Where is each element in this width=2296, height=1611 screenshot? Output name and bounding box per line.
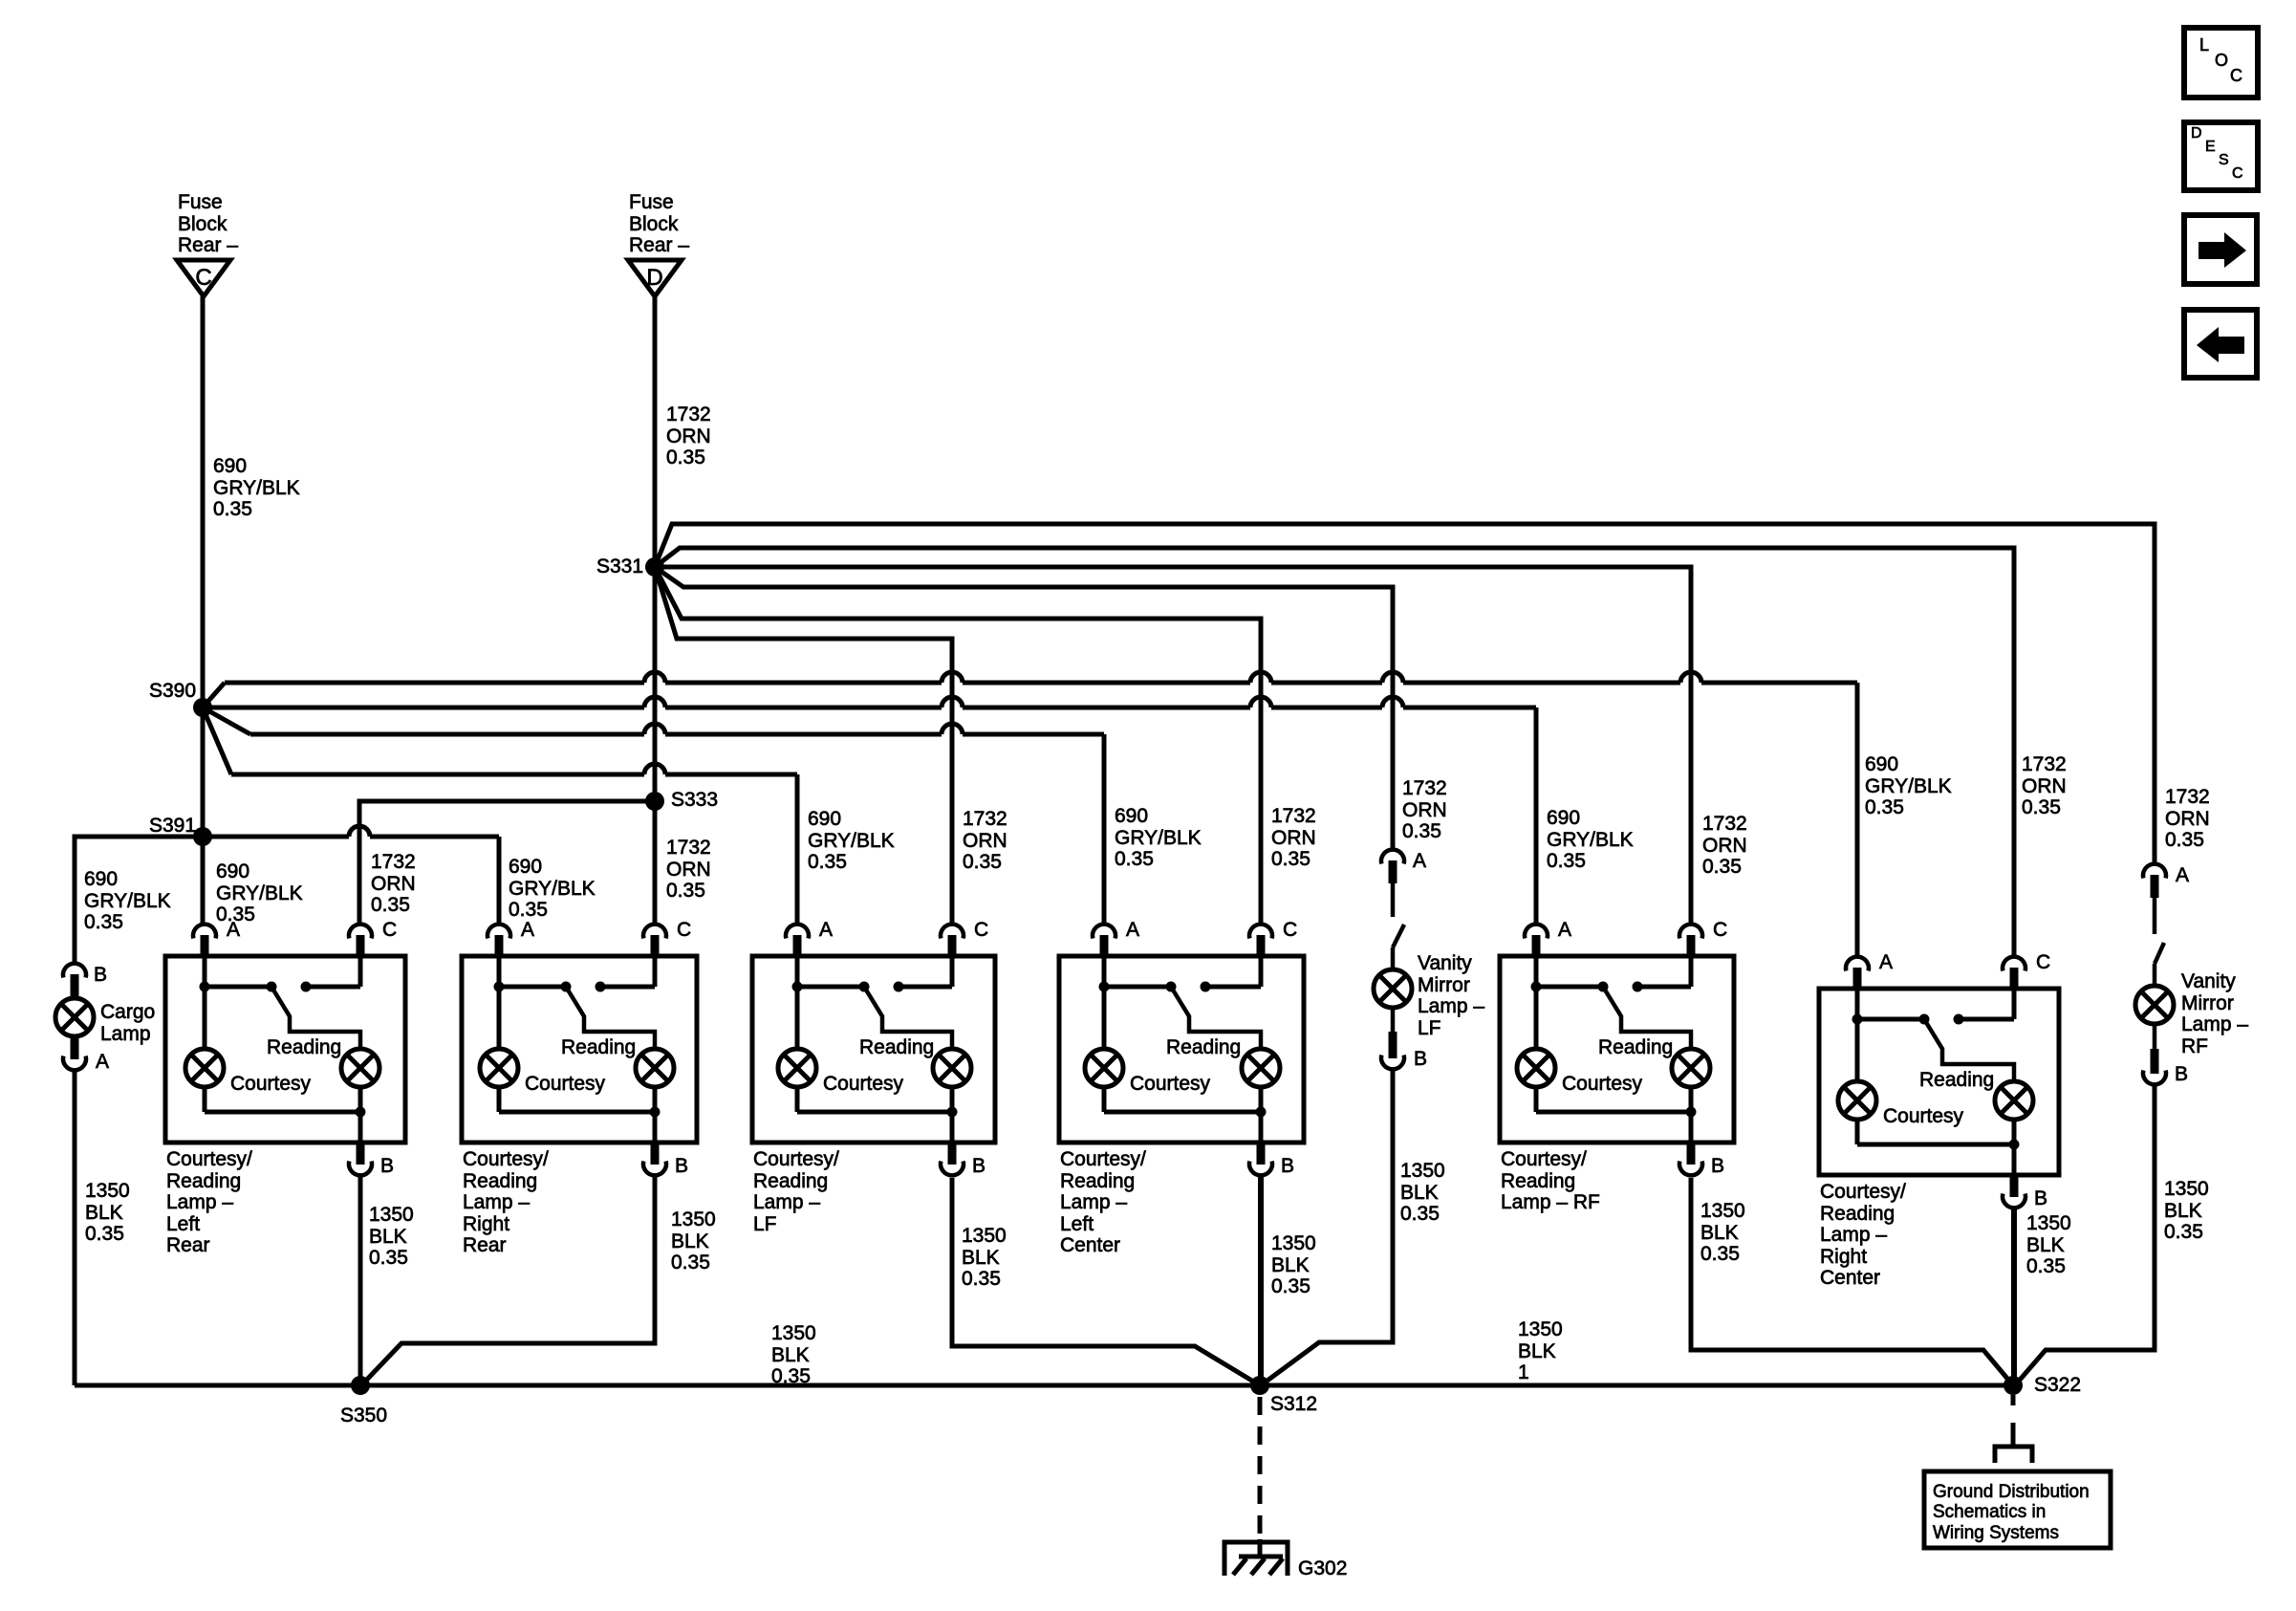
wire S331 to Vanity Mirror Lamp LF connector A [655, 567, 1393, 849]
svg-text:1: 1 [1518, 1361, 1529, 1383]
lamp return wiring (Courtesy/Reading Lamp - Left Rear) [205, 1087, 366, 1143]
label wire 1732 ORN 0.35 (triangle D wire) [666, 403, 711, 468]
wire LF B to S312 [952, 1178, 1260, 1385]
legend box left arrow [2184, 310, 2257, 378]
wire Vanity LF B to S312 [1261, 1070, 1393, 1385]
wire stub S322 to ground distribution reference [1995, 1395, 2032, 1463]
svg-text:Courtesy/: Courtesy/ [1820, 1181, 1906, 1203]
svg-text:ORN: ORN [2165, 808, 2210, 830]
svg-text:0.35: 0.35 [671, 1252, 710, 1274]
svg-text:BLK: BLK [1400, 1182, 1439, 1204]
svg-text:0.35: 0.35 [85, 1223, 124, 1245]
reading lamp (Courtesy/Reading Lamp - RF) [1672, 1049, 1710, 1087]
internal wiring and switch (Courtesy/Reading Lamp - Left Rear) [200, 956, 361, 1049]
svg-text:Courtesy/: Courtesy/ [753, 1148, 839, 1170]
svg-text:S312: S312 [1270, 1393, 1317, 1415]
svg-text:0.35: 0.35 [369, 1247, 408, 1269]
splice S331 [645, 557, 664, 577]
courtesy lamp (Courtesy/Reading Lamp - Right Center) [1838, 1081, 1876, 1120]
label wire 690 GRY/BLK 0.35 (lamp Right Rear A) [509, 856, 596, 921]
internal wiring and switch (Courtesy/Reading Lamp - Right Rear) [494, 956, 656, 1049]
svg-text:BLK: BLK [369, 1226, 407, 1248]
svg-text:Block: Block [178, 213, 227, 235]
connector A (Courtesy/Reading Lamp - Right Rear) [487, 925, 510, 956]
svg-text:Right: Right [463, 1213, 509, 1235]
svg-text:BLK: BLK [2164, 1200, 2202, 1222]
svg-text:Lamp –: Lamp – [753, 1191, 820, 1213]
connector B (Courtesy/Reading Lamp - Right Center) [2003, 1175, 2025, 1208]
label Courtesy/Reading Lamp - Left Rear [166, 1148, 252, 1256]
lamp return wiring (Courtesy/Reading Lamp - Right Center) [1857, 1120, 2020, 1175]
svg-text:BLK: BLK [962, 1247, 1000, 1269]
svg-text:Courtesy/: Courtesy/ [1060, 1148, 1146, 1170]
svg-text:Courtesy/: Courtesy/ [166, 1148, 252, 1170]
wire S391 left to Cargo Lamp connector B [75, 837, 203, 963]
splice S350 [351, 1376, 370, 1395]
svg-text:0.35: 0.35 [1271, 848, 1310, 870]
svg-text:Left: Left [1060, 1213, 1094, 1235]
label wire 1350 BLK 0.35 (Right Center B) [2026, 1212, 2071, 1277]
svg-text:0.35: 0.35 [1865, 796, 1904, 818]
svg-text:D: D [646, 265, 662, 291]
svg-text:C: C [2230, 66, 2242, 85]
svg-text:1732: 1732 [371, 851, 416, 873]
connector C (Courtesy/Reading Lamp - Left Center) [1249, 925, 1272, 956]
wire S391 right to Courtesy/Reading Lamp Right Rear connector A (hop) [203, 826, 499, 924]
svg-text:Left: Left [166, 1213, 200, 1235]
svg-text:Cargo: Cargo [100, 1001, 155, 1023]
label wire 1732 ORN 0.35 (lamp Right Center C) [2022, 753, 2067, 818]
svg-text:0.35: 0.35 [666, 880, 705, 902]
internal wiring and switch (Courtesy/Reading Lamp - RF) [1531, 956, 1692, 1049]
svg-text:GRY/BLK: GRY/BLK [1115, 827, 1202, 849]
label Fuse Block Rear - (left) [178, 191, 238, 256]
svg-text:0.35: 0.35 [963, 851, 1002, 873]
wire S390 to Courtesy/Reading Lamp Left Center connector A (hops) [203, 708, 1104, 924]
reading lamp (Courtesy/Reading Lamp - LF) [933, 1049, 971, 1087]
svg-text:C: C [382, 919, 397, 941]
svg-text:690: 690 [509, 856, 542, 878]
label wire 690 GRY/BLK 0.35 (lamp LF A) [808, 808, 895, 873]
connector C (Courtesy/Reading Lamp - LF) [941, 925, 964, 956]
wire Right Center B to S322 [2011, 1208, 2017, 1385]
svg-text:1732: 1732 [1702, 813, 1747, 835]
switch (Vanity Mirror Lamp RF) [2155, 898, 2164, 964]
svg-text:BLK: BLK [85, 1202, 123, 1224]
lamp assembly box (Courtesy/Reading Lamp - Right Rear) [462, 956, 697, 1143]
label wire 1732 ORN 0.35 (Vanity Mirror LF A) [1402, 777, 1447, 842]
label wire 1350 BLK 0.35 (Vanity LF B) [1400, 1160, 1445, 1225]
svg-text:S391: S391 [149, 815, 196, 837]
svg-text:ORN: ORN [2022, 775, 2067, 797]
svg-text:Lamp: Lamp [100, 1023, 151, 1045]
svg-text:ORN: ORN [1702, 835, 1747, 857]
splice S312 [1250, 1376, 1269, 1395]
connector C (Courtesy/Reading Lamp - Left Rear) [349, 925, 372, 956]
internal wiring and switch (Courtesy/Reading Lamp - Right Center) [1852, 989, 2015, 1081]
svg-text:1350: 1350 [2164, 1178, 2209, 1200]
connector B (Courtesy/Reading Lamp - Left Center) [1249, 1143, 1272, 1175]
svg-text:A: A [819, 919, 833, 941]
label wire 1350 BLK 0.35 (Right Rear B) [671, 1208, 716, 1274]
svg-text:BLK: BLK [1271, 1254, 1310, 1276]
svg-text:1732: 1732 [2022, 753, 2067, 775]
svg-text:690: 690 [1115, 805, 1148, 827]
svg-text:Reading: Reading [1166, 1036, 1241, 1058]
svg-text:Reading: Reading [1919, 1069, 1994, 1091]
label wire 1732 ORN 0.35 (Vanity Mirror RF A) [2165, 786, 2210, 851]
svg-text:690: 690 [1865, 753, 1898, 775]
svg-text:Reading: Reading [859, 1036, 934, 1058]
svg-text:Lamp –: Lamp – [1060, 1191, 1127, 1213]
lamp assembly box (Courtesy/Reading Lamp - LF) [752, 956, 995, 1143]
svg-text:B: B [94, 964, 107, 986]
svg-text:A: A [1879, 951, 1893, 973]
svg-text:ORN: ORN [1271, 827, 1316, 849]
svg-text:Reading: Reading [267, 1036, 341, 1058]
svg-text:Vanity: Vanity [1418, 952, 1472, 974]
vanity mirror lamp RF [2135, 964, 2174, 1024]
courtesy lamp (Courtesy/Reading Lamp - Left Center) [1085, 1049, 1123, 1087]
svg-text:Wiring Systems: Wiring Systems [1933, 1523, 2059, 1543]
svg-text:C: C [2232, 165, 2243, 182]
svg-text:G302: G302 [1298, 1557, 1347, 1579]
wire 1732 ORN from triangle D down through S331/S333 to lamp C [653, 296, 658, 924]
svg-text:0.35: 0.35 [962, 1268, 1001, 1290]
label wire 1732 ORN 0.35 (lamp LF C) [963, 808, 1007, 873]
internal wiring and switch (Courtesy/Reading Lamp - LF) [792, 956, 953, 1049]
svg-text:C: C [1283, 919, 1297, 941]
svg-text:Reading: Reading [1820, 1203, 1895, 1225]
label wire 1350 BLK 0.35 (Left Center B) [1271, 1232, 1316, 1297]
svg-text:Rear: Rear [166, 1234, 210, 1256]
svg-text:E: E [2205, 139, 2216, 155]
svg-text:690: 690 [216, 860, 249, 882]
courtesy lamp (Courtesy/Reading Lamp - RF) [1517, 1049, 1555, 1087]
svg-text:ORN: ORN [666, 425, 711, 447]
lamp return wiring (Courtesy/Reading Lamp - Right Rear) [499, 1087, 661, 1143]
svg-text:S390: S390 [149, 680, 196, 702]
svg-text:1350: 1350 [2026, 1212, 2071, 1234]
lamp return wiring (Courtesy/Reading Lamp - LF) [797, 1087, 958, 1143]
label wire 1350 BLK 0.35 (Left Rear B) [369, 1204, 414, 1269]
svg-text:Reading: Reading [1060, 1170, 1135, 1192]
svg-text:A: A [1413, 850, 1426, 872]
wire Vanity RF B to S322 [2015, 1085, 2155, 1385]
connector B (Vanity Mirror Lamp LF) [1381, 1008, 1404, 1069]
svg-text:Courtesy: Courtesy [1562, 1073, 1643, 1095]
svg-text:C: C [2036, 951, 2050, 973]
lamp assembly box (Courtesy/Reading Lamp - Left Center) [1059, 956, 1304, 1143]
svg-text:1350: 1350 [369, 1204, 414, 1226]
svg-text:B: B [675, 1155, 688, 1177]
internal wiring and switch (Courtesy/Reading Lamp - Left Center) [1099, 956, 1262, 1049]
wire 1350 BLK from Cargo Lamp A to ground bus [73, 1071, 77, 1385]
wire S390 to Courtesy/Reading Lamp LF connector A (hop over D wire) [203, 708, 797, 924]
svg-text:690: 690 [808, 808, 841, 830]
svg-text:Courtesy/: Courtesy/ [1501, 1148, 1587, 1170]
label wire 1732 ORN 0.35 (lamp Left Rear C) [371, 851, 416, 916]
connector C (Courtesy/Reading Lamp - Right Center) [2003, 957, 2025, 989]
svg-text:S350: S350 [340, 1404, 387, 1426]
svg-text:0.35: 0.35 [666, 446, 705, 468]
svg-text:B: B [1414, 1048, 1427, 1070]
svg-text:ORN: ORN [666, 859, 711, 881]
svg-text:O: O [2215, 51, 2228, 70]
svg-text:Fuse: Fuse [629, 191, 674, 213]
label wire 1350 BLK 0.35 (LF B) [962, 1225, 1007, 1290]
connector A (Courtesy/Reading Lamp - Left Rear) [193, 925, 216, 956]
svg-text:S: S [2219, 152, 2229, 168]
svg-text:Lamp –: Lamp – [2181, 1013, 2248, 1035]
splice S333 [645, 792, 664, 811]
ground bus wire 1350 BLK [75, 1383, 2013, 1388]
svg-text:B: B [2175, 1063, 2188, 1085]
svg-text:C: C [195, 265, 211, 291]
svg-text:B: B [380, 1155, 394, 1177]
svg-text:GRY/BLK: GRY/BLK [213, 477, 300, 499]
svg-text:S322: S322 [2034, 1374, 2081, 1396]
svg-text:Reading: Reading [753, 1170, 828, 1192]
label wire 1732 ORN 0.35 (lamp Left Center C) [1271, 805, 1316, 870]
courtesy lamp (Courtesy/Reading Lamp - LF) [778, 1049, 816, 1087]
svg-text:LF: LF [1418, 1017, 1441, 1039]
label wire 1732 ORN 0.35 (lamp RF C) [1702, 813, 1747, 878]
svg-text:Reading: Reading [1501, 1170, 1575, 1192]
svg-text:0.35: 0.35 [1402, 820, 1441, 842]
svg-text:0.35: 0.35 [771, 1365, 811, 1387]
wire Right Rear B to S350 [361, 1176, 655, 1385]
svg-text:S333: S333 [671, 789, 718, 811]
svg-text:0.35: 0.35 [808, 851, 847, 873]
svg-text:0.35: 0.35 [371, 894, 410, 916]
label wire 1732 ORN 0.35 (lamp Right Rear C) [666, 837, 711, 902]
svg-text:B: B [972, 1155, 986, 1177]
svg-text:Right: Right [1820, 1246, 1867, 1268]
legend box LOC [2184, 28, 2258, 98]
svg-text:0.35: 0.35 [509, 899, 548, 921]
label wire 690 GRY/BLK 0.35 (lamp Left Rear A) [216, 860, 303, 925]
svg-text:690: 690 [213, 455, 247, 477]
lamp return wiring (Courtesy/Reading Lamp - Left Center) [1104, 1087, 1267, 1143]
svg-text:0.35: 0.35 [2165, 829, 2204, 851]
svg-text:Reading: Reading [1598, 1036, 1673, 1058]
svg-text:Ground Distribution: Ground Distribution [1933, 1482, 2090, 1502]
label wire 1350 BLK 0.35 (cargo ground) [85, 1180, 130, 1245]
svg-text:1732: 1732 [666, 403, 711, 425]
svg-text:Schematics in: Schematics in [1933, 1502, 2046, 1522]
connector B (Courtesy/Reading Lamp - Left Rear) [349, 1143, 372, 1175]
splice S391 [193, 827, 212, 846]
svg-text:1350: 1350 [771, 1322, 816, 1344]
svg-text:A: A [521, 919, 534, 941]
svg-text:GRY/BLK: GRY/BLK [1547, 829, 1634, 851]
wire S331 to Vanity Mirror Lamp RF connector A [655, 524, 2155, 863]
courtesy lamp (Courtesy/Reading Lamp - Right Rear) [480, 1049, 518, 1087]
svg-text:C: C [677, 919, 691, 941]
legend box right arrow [2184, 215, 2257, 284]
label Courtesy/Reading Lamp - Right Center [1820, 1181, 1906, 1289]
dashed wire S312 to G302 [1258, 1397, 1263, 1539]
svg-text:1350: 1350 [1271, 1232, 1316, 1254]
svg-text:B: B [1711, 1155, 1724, 1177]
svg-text:1350: 1350 [962, 1225, 1007, 1247]
svg-text:L: L [2199, 35, 2209, 54]
svg-text:ORN: ORN [963, 830, 1007, 852]
svg-text:0.35: 0.35 [2026, 1255, 2066, 1277]
svg-text:0.35: 0.35 [1271, 1275, 1310, 1297]
svg-text:Courtesy: Courtesy [823, 1073, 904, 1095]
svg-text:0.35: 0.35 [2164, 1221, 2203, 1243]
svg-text:Reading: Reading [561, 1036, 636, 1058]
svg-text:1350: 1350 [1400, 1160, 1445, 1182]
svg-text:1350: 1350 [671, 1208, 716, 1230]
cargo lamp [55, 998, 94, 1036]
label wire 1350 BLK 1 (ground bus right) [1518, 1318, 1563, 1383]
label Courtesy/Reading Lamp - RF [1501, 1148, 1600, 1213]
svg-text:Reading: Reading [463, 1170, 537, 1192]
wire S331 to Courtesy/Reading Lamp LF connector C [655, 567, 952, 924]
ground G302 [1224, 1539, 1288, 1576]
reading lamp (Courtesy/Reading Lamp - Right Center) [1995, 1081, 2033, 1120]
svg-text:Rear: Rear [463, 1234, 507, 1256]
label Cargo Lamp [100, 1001, 155, 1045]
svg-text:1350: 1350 [1518, 1318, 1563, 1340]
wire Left Rear B to S350 [358, 1176, 363, 1385]
lamp return wiring (Courtesy/Reading Lamp - RF) [1536, 1087, 1697, 1143]
connector B (Vanity Mirror Lamp RF) [2143, 1024, 2166, 1084]
svg-text:0.35: 0.35 [213, 498, 252, 520]
svg-text:GRY/BLK: GRY/BLK [84, 890, 171, 912]
wire 690 GRY/BLK from triangle C down to S390/S391/lamp A [201, 296, 206, 924]
svg-text:BLK: BLK [1518, 1340, 1556, 1362]
svg-text:Vanity: Vanity [2181, 970, 2236, 992]
connector A (Courtesy/Reading Lamp - LF) [786, 925, 809, 956]
svg-text:Lamp –: Lamp – [1418, 995, 1484, 1017]
connector triangle C (Fuse Block Rear) [177, 260, 230, 296]
svg-text:1732: 1732 [963, 808, 1007, 830]
connector B (Cargo Lamp) [63, 964, 86, 998]
connector triangle D (Fuse Block Rear) [628, 260, 682, 296]
wire S390 to Courtesy/Reading Lamp RF connector A (hops) [203, 697, 1536, 924]
svg-text:A: A [96, 1051, 109, 1073]
connector A (Vanity Mirror Lamp LF) [1381, 850, 1404, 883]
label Courtesy/Reading Lamp - LF [753, 1148, 839, 1235]
svg-text:BLK: BLK [771, 1344, 810, 1366]
wire S333 to Courtesy/Reading Lamp Left Rear connector C [359, 801, 655, 924]
wire Left Center B to S312 [1258, 1176, 1264, 1385]
reading lamp (Courtesy/Reading Lamp - Left Rear) [341, 1049, 379, 1087]
svg-text:0.35: 0.35 [1400, 1203, 1440, 1225]
lamp assembly box (Courtesy/Reading Lamp - Right Center) [1819, 989, 2059, 1175]
svg-text:ORN: ORN [1402, 799, 1447, 821]
label wire 690 GRY/BLK 0.35 (lamp Right Center A) [1865, 753, 1952, 818]
connector C (Courtesy/Reading Lamp - Right Rear) [643, 925, 666, 956]
svg-text:GRY/BLK: GRY/BLK [509, 878, 596, 900]
svg-text:Courtesy: Courtesy [525, 1073, 606, 1095]
connector C (Courtesy/Reading Lamp - RF) [1679, 925, 1702, 956]
svg-text:BLK: BLK [2026, 1234, 2065, 1256]
svg-text:Lamp –: Lamp – [463, 1191, 530, 1213]
connector A (Cargo Lamp) [63, 1036, 86, 1070]
label wire 690 GRY/BLK 0.35 (cargo lamp feed) [84, 868, 171, 933]
lamp assembly box (Courtesy/Reading Lamp - RF) [1500, 956, 1734, 1143]
svg-text:Center: Center [1060, 1234, 1120, 1256]
svg-text:1732: 1732 [666, 837, 711, 859]
reading lamp (Courtesy/Reading Lamp - Left Center) [1242, 1049, 1280, 1087]
splice S390 [193, 698, 212, 717]
svg-text:Lamp –: Lamp – [166, 1191, 233, 1213]
label wire 1350 BLK 0.35 (ground bus left) [771, 1322, 816, 1387]
connector B (Courtesy/Reading Lamp - Right Rear) [643, 1143, 666, 1175]
svg-text:A: A [1126, 919, 1139, 941]
svg-text:C: C [974, 919, 988, 941]
svg-text:Fuse: Fuse [178, 191, 223, 213]
wire RF B to S322 [1691, 1178, 2013, 1385]
svg-text:0.35: 0.35 [1702, 856, 1742, 878]
svg-text:Rear –: Rear – [629, 234, 689, 256]
svg-text:0.35: 0.35 [1547, 850, 1586, 872]
wire S331 to Courtesy/Reading Lamp Right Center connector C [655, 548, 2014, 956]
label wire 1350 BLK 0.35 (Vanity RF B) [2164, 1178, 2209, 1243]
svg-text:GRY/BLK: GRY/BLK [1865, 775, 1952, 797]
reading lamp (Courtesy/Reading Lamp - Right Rear) [636, 1049, 674, 1087]
svg-text:C: C [1713, 919, 1727, 941]
svg-text:BLK: BLK [671, 1230, 709, 1252]
svg-text:GRY/BLK: GRY/BLK [808, 830, 895, 852]
svg-text:Lamp – RF: Lamp – RF [1501, 1191, 1600, 1213]
svg-text:690: 690 [84, 868, 118, 890]
label Vanity Mirror Lamp - LF [1418, 952, 1484, 1039]
connector B (Courtesy/Reading Lamp - RF) [1679, 1143, 1702, 1175]
svg-text:ORN: ORN [371, 873, 416, 895]
svg-text:0.35: 0.35 [84, 911, 123, 933]
svg-text:LF: LF [753, 1213, 777, 1235]
svg-text:B: B [2034, 1187, 2047, 1209]
label wire 690 GRY/BLK 0.35 (lamp RF A) [1547, 807, 1634, 872]
svg-text:RF: RF [2181, 1035, 2208, 1057]
svg-text:Mirror: Mirror [1418, 974, 1470, 996]
wire S331 to Courtesy/Reading Lamp Left Center connector C [655, 567, 1261, 924]
svg-text:Lamp –: Lamp – [1820, 1224, 1887, 1246]
label wire 1350 BLK 0.35 (RF B) [1700, 1200, 1745, 1265]
wire S390 to Courtesy/Reading Lamp Right Center connector A (hops) [203, 672, 1857, 956]
lamp assembly box (Courtesy/Reading Lamp - Left Rear) [165, 956, 405, 1143]
label wire 690 GRY/BLK 0.35 (lamp Left Center A) [1115, 805, 1202, 870]
svg-text:S331: S331 [596, 555, 643, 577]
connector A (Courtesy/Reading Lamp - RF) [1525, 925, 1548, 956]
svg-text:Block: Block [629, 213, 679, 235]
svg-text:Courtesy: Courtesy [1883, 1105, 1964, 1127]
label wire 690 GRY/BLK 0.35 (triangle C wire) [213, 455, 300, 520]
svg-text:Rear –: Rear – [178, 234, 238, 256]
svg-text:0.35: 0.35 [1700, 1243, 1740, 1265]
svg-text:Mirror: Mirror [2181, 992, 2234, 1014]
svg-text:1732: 1732 [1271, 805, 1316, 827]
label Vanity Mirror Lamp - RF [2181, 970, 2248, 1057]
svg-text:1732: 1732 [2165, 786, 2210, 808]
courtesy lamp (Courtesy/Reading Lamp - Left Rear) [185, 1049, 224, 1087]
svg-text:1732: 1732 [1402, 777, 1447, 799]
svg-text:0.35: 0.35 [1115, 848, 1154, 870]
label Courtesy/Reading Lamp - Right Rear [463, 1148, 549, 1256]
connector B (Courtesy/Reading Lamp - LF) [941, 1143, 964, 1175]
connector A (Courtesy/Reading Lamp - Left Center) [1093, 925, 1116, 956]
svg-text:Courtesy/: Courtesy/ [463, 1148, 549, 1170]
reference box Ground Distribution Schematics in Wiring Systems [1924, 1471, 2111, 1548]
svg-text:A: A [1558, 919, 1571, 941]
svg-text:1350: 1350 [85, 1180, 130, 1202]
